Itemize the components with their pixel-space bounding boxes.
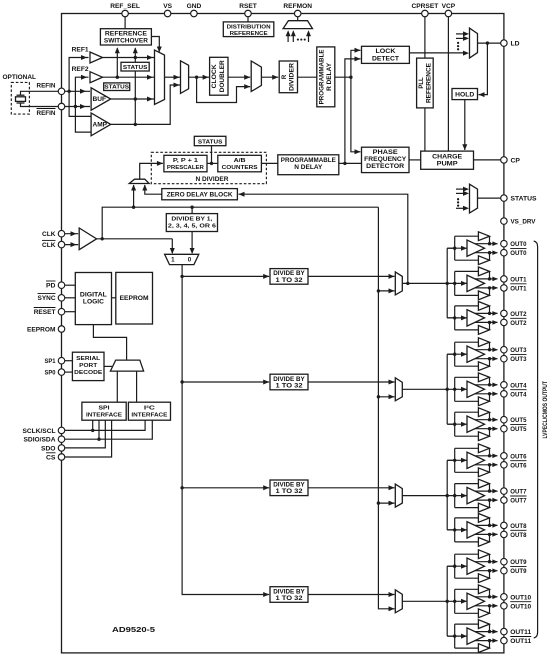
- svg-text:OUT8: OUT8: [510, 523, 526, 530]
- wire digital logic to eeprom: [112, 297, 116, 299]
- wire mux2 output: [189, 76, 210, 78]
- svg-text:OUT1: OUT1: [510, 276, 526, 283]
- output driver OUT9: [447, 550, 507, 583]
- wire reference switchover to mux1 select: [151, 37, 159, 52]
- bracket LVPECL/CMOS outputs: [534, 241, 538, 638]
- output driver OUT7: [447, 479, 507, 512]
- mux CLK source select 1/0: [165, 254, 199, 264]
- block REFERENCE SWITCHOVER: [100, 29, 151, 45]
- svg-text:N DELAY: N DELAY: [294, 165, 322, 171]
- wire REFIN branch up to REF1: [69, 58, 88, 92]
- wire VCP to charge pump: [447, 17, 449, 152]
- output driver OUT6: [447, 444, 507, 477]
- block PHASE FREQUENCY DETECTOR: [362, 147, 410, 172]
- wire REF2 output to mux: [103, 76, 155, 78]
- svg-text:SYNC: SYNC: [38, 295, 56, 302]
- svg-text:STATUS: STATUS: [123, 65, 148, 71]
- svg-text:2, 3, 4, 5, OR 6: 2, 3, 4, 5, OR 6: [168, 224, 217, 230]
- mux STATUS monitor: [456, 188, 463, 190]
- wire output group branch: [446, 354, 448, 424]
- svg-text:1 TO 32: 1 TO 32: [276, 595, 304, 602]
- wire output group branch: [446, 566, 448, 636]
- wire N delay to lock detect: [345, 59, 361, 163]
- wire trunk to channel mux A: [377, 289, 380, 292]
- wire divider D to channel mux: [308, 594, 395, 596]
- svg-text:DETECTOR: DETECTOR: [366, 164, 405, 170]
- svg-text:PUMP: PUMP: [437, 161, 458, 167]
- svg-text:REFERENCE: REFERENCE: [105, 31, 147, 37]
- svg-text:R: R: [282, 74, 288, 79]
- output driver OUT4: [447, 373, 507, 406]
- wire N delay to PFD: [339, 162, 362, 164]
- wire CS: [62, 420, 112, 457]
- svg-text:BUF: BUF: [93, 96, 107, 103]
- wire PD stub: [62, 284, 76, 286]
- svg-text:PROGRAMMABLE: PROGRAMMABLE: [319, 49, 325, 104]
- svg-text:SP1: SP1: [45, 358, 56, 365]
- block DIVIDE BY 1 TO 32 (B): [270, 374, 308, 390]
- wire serial port decode to mux: [104, 365, 112, 367]
- svg-text:SPI: SPI: [99, 405, 110, 411]
- svg-text:REF1: REF1: [72, 48, 90, 54]
- svg-text:A/B: A/B: [234, 158, 246, 164]
- wire CLK buffer output node: [97, 238, 173, 240]
- svg-text:VS_DRV: VS_DRV: [511, 219, 536, 226]
- svg-text:AD9520-5: AD9520-5: [112, 625, 155, 634]
- svg-text:STATUS: STATUS: [511, 196, 537, 203]
- block P P+1 PRESCALER: [164, 155, 207, 172]
- output driver OUT2: [447, 302, 507, 335]
- node prescaler to counters: [207, 162, 218, 164]
- svg-text:GND: GND: [187, 3, 202, 10]
- wire REFIN to crystal: [21, 91, 62, 95]
- block R DIVIDER: [279, 61, 297, 93]
- svg-text:1 TO 32: 1 TO 32: [276, 382, 304, 389]
- wire LD node to HOLD: [479, 43, 488, 95]
- svg-text:SDIO/SDA: SDIO/SDA: [24, 437, 56, 444]
- status box REF1: [121, 62, 149, 71]
- svg-text:PROGRAMMABLE: PROGRAMMABLE: [281, 158, 336, 164]
- svg-text:SWITCHOVER: SWITCHOVER: [104, 38, 149, 44]
- wire CLK line to N mux: [133, 185, 135, 207]
- mux U2 reference/amp select: [181, 61, 189, 94]
- output driver OUT11: [447, 620, 507, 653]
- wire divide by 1-6 to mux 0 input: [191, 232, 193, 254]
- wire output group branch: [446, 460, 448, 530]
- wire CLK direct to mux 1 input: [171, 239, 173, 253]
- block DISTRIBUTION REFERENCE: [223, 22, 273, 37]
- block ZERO DELAY BLOCK: [162, 189, 238, 200]
- svg-text:REF_SEL: REF_SEL: [110, 3, 140, 10]
- svg-text:N DIVIDER: N DIVIDER: [196, 177, 230, 183]
- block I2C INTERFACE: [128, 402, 170, 420]
- wire mux3 to R divider: [261, 76, 278, 78]
- svg-text:ZERO DELAY BLOCK: ZERO DELAY BLOCK: [167, 193, 234, 199]
- wire SCLK/SCL: [62, 420, 146, 430]
- svg-text:OUT2: OUT2: [510, 311, 526, 318]
- svg-text:PHASE: PHASE: [373, 150, 398, 156]
- output driver OUT5: [447, 408, 507, 441]
- wire feedback to zero delay block: [239, 194, 408, 283]
- wire divider row B input: [182, 381, 269, 383]
- wire channel C mux output: [402, 495, 447, 497]
- buffer CLK input: [62, 233, 79, 235]
- wire divider A to channel mux: [308, 275, 395, 277]
- svg-text:REFIN: REFIN: [37, 110, 56, 117]
- wire REFMON mux inputs: [287, 32, 289, 43]
- mux N divider input select: [129, 179, 149, 183]
- wire SDIO/SDA: [62, 420, 153, 439]
- svg-text:I²C: I²C: [144, 404, 156, 411]
- wire channel A mux output: [402, 282, 447, 284]
- wire REFINB branch up to REF2: [75, 77, 88, 106]
- chip outline AD9520-5: [62, 14, 504, 653]
- wire channel B mux output: [402, 388, 447, 390]
- svg-text:OUT3: OUT3: [510, 347, 526, 354]
- svg-text:SP0: SP0: [45, 370, 56, 377]
- svg-text:OPTIONAL: OPTIONAL: [3, 74, 37, 81]
- wire divider C to channel mux: [308, 487, 395, 489]
- wire charge pump to CP pin: [474, 159, 504, 161]
- svg-text:0: 0: [188, 257, 192, 264]
- block DIVIDE BY 1,2,3,4,5 OR 6: [166, 214, 217, 232]
- svg-text:OUT11: OUT11: [510, 629, 531, 636]
- block SERIAL PORT DECODE: [72, 352, 104, 380]
- block LOCK DETECT: [362, 46, 410, 63]
- wire zero delay to N mux: [145, 185, 162, 194]
- svg-text:CLOCK: CLOCK: [212, 64, 218, 89]
- block EEPROM: [116, 272, 153, 324]
- svg-text:1 TO 32: 1 TO 32: [276, 277, 304, 284]
- svg-text:SCLK/SCL: SCLK/SCL: [23, 428, 56, 435]
- svg-text:LOGIC: LOGIC: [83, 299, 105, 305]
- svg-text:DECODE: DECODE: [74, 370, 102, 376]
- svg-text:AMP: AMP: [93, 122, 108, 129]
- block PLL REFERENCE: [417, 58, 434, 108]
- svg-text:INTERFACE: INTERFACE: [131, 412, 167, 418]
- svg-text:CPRSET: CPRSET: [412, 3, 439, 10]
- block PROGRAMMABLE R DELAY: [317, 47, 335, 107]
- svg-text:1 TO 32: 1 TO 32: [276, 488, 304, 495]
- svg-text:OUT8: OUT8: [510, 532, 526, 539]
- svg-text:DIGITAL: DIGITAL: [80, 292, 107, 298]
- block DIVIDE BY 1 TO 32 (C): [270, 480, 308, 496]
- output driver OUT8: [447, 514, 507, 547]
- mux LD monitor: [456, 33, 463, 35]
- optional crystal dashed box: [11, 82, 29, 114]
- wire REFINB into chip to BUF: [62, 106, 91, 108]
- svg-text:REF2: REF2: [72, 67, 90, 73]
- svg-text:HOLD: HOLD: [455, 92, 475, 99]
- wire channel D mux output: [402, 600, 447, 602]
- wire REFIN into chip to BUF: [62, 90, 91, 92]
- block CHARGE PUMP: [421, 151, 474, 169]
- wire SDO: [62, 420, 106, 448]
- svg-text:FREQUENCY: FREQUENCY: [364, 157, 406, 163]
- svg-text:OUT7: OUT7: [510, 489, 526, 496]
- wire mux to SPI interface: [116, 371, 118, 402]
- svg-text:PD: PD: [46, 283, 56, 290]
- buffer BUF: [91, 88, 111, 110]
- svg-text:OUT5: OUT5: [510, 426, 526, 433]
- wire status to N divider node: [211, 146, 213, 164]
- output driver OUT10: [447, 585, 507, 618]
- svg-text:SDO: SDO: [41, 445, 56, 452]
- svg-text:R DELAY: R DELAY: [327, 63, 333, 91]
- svg-text:OUT6: OUT6: [510, 462, 526, 469]
- wire digital logic to serial mux: [93, 325, 126, 361]
- svg-text:1: 1: [171, 257, 175, 264]
- svg-text:REFERENCE: REFERENCE: [230, 31, 268, 37]
- svg-text:PORT: PORT: [79, 363, 97, 369]
- svg-text:STATUS: STATUS: [104, 85, 129, 91]
- wire trunk to channel mux C: [377, 501, 380, 504]
- block A/B COUNTERS: [218, 155, 262, 172]
- svg-text:PLL: PLL: [419, 77, 425, 89]
- dashed box N DIVIDER: [151, 152, 266, 183]
- svg-text:CLK: CLK: [42, 231, 56, 238]
- wire divider row A input: [182, 275, 269, 277]
- svg-text:PRESCALER: PRESCALER: [167, 165, 205, 171]
- svg-text:EEPROM: EEPROM: [120, 296, 149, 302]
- svg-text:OUT10: OUT10: [510, 603, 531, 610]
- svg-text:OUT10: OUT10: [510, 594, 531, 601]
- block CLOCK DOUBLER: [210, 57, 228, 95]
- svg-text:OUT5: OUT5: [510, 417, 526, 424]
- mux channel A: [395, 272, 402, 295]
- wire status monitor vertical REF2: [116, 48, 118, 77]
- wire RSET to distribution reference: [247, 17, 249, 22]
- svg-text:LVPECL/CMOS OUTPUT: LVPECL/CMOS OUTPUT: [542, 381, 549, 439]
- block PROGRAMMABLE N DELAY: [278, 155, 339, 175]
- svg-text:VCP: VCP: [442, 3, 456, 10]
- svg-text:INTERFACE: INTERFACE: [86, 412, 122, 418]
- wire N mux to prescaler: [140, 163, 163, 179]
- wire AMP output to mux2: [111, 85, 181, 124]
- svg-text:OUT1: OUT1: [510, 285, 526, 292]
- wire distribution trunk vertical: [378, 207, 394, 609]
- svg-text:REFIN: REFIN: [37, 83, 56, 90]
- svg-text:DIVIDE BY 1,: DIVIDE BY 1,: [171, 217, 212, 223]
- block DIVIDE BY 1 TO 32 (D): [270, 587, 308, 603]
- mux U3 doubler bypass: [251, 61, 261, 92]
- svg-text:OUT3: OUT3: [510, 356, 526, 363]
- svg-text:OUT0: OUT0: [510, 250, 526, 257]
- output driver OUT3: [447, 338, 507, 371]
- wire output group branch: [446, 248, 448, 318]
- block DIGITAL LOGIC: [75, 273, 111, 325]
- wire divider trunk vertical: [182, 265, 269, 595]
- wire mux1 to mux2: [165, 76, 181, 78]
- wire doubler to mux3: [228, 76, 250, 78]
- svg-text:OUT4: OUT4: [510, 391, 526, 398]
- block DIVIDE BY 1 TO 32 (A): [270, 269, 308, 285]
- wire lock detect to LD mux: [409, 52, 463, 54]
- svg-text:OUT11: OUT11: [510, 638, 531, 645]
- output driver OUT1: [447, 267, 507, 300]
- svg-text:DISTRIBUTION: DISTRIBUTION: [227, 24, 271, 30]
- wire SP0 stub: [62, 371, 73, 373]
- mux U1 reference select: [155, 50, 165, 105]
- buffer AMP: [91, 113, 111, 136]
- svg-text:LD: LD: [511, 41, 520, 48]
- wire LD mux to LD pin: [478, 42, 504, 44]
- mux REFMON monitor: [297, 17, 299, 21]
- svg-text:P, P + 1: P, P + 1: [173, 158, 199, 164]
- wire BUF output to mux: [111, 98, 155, 100]
- svg-text:DIVIDER: DIVIDER: [289, 62, 295, 91]
- wire REFINB branch down to AMP: [75, 107, 91, 133]
- svg-text:REFMON: REFMON: [283, 3, 312, 10]
- svg-text:OUT9: OUT9: [510, 559, 526, 566]
- wire mux to I2C interface: [136, 371, 138, 402]
- svg-text:DETECT: DETECT: [372, 56, 399, 62]
- wire divider B to channel mux: [308, 381, 395, 383]
- svg-text:OUT7: OUT7: [510, 498, 526, 505]
- block SPI INTERFACE: [82, 402, 126, 420]
- svg-text:SERIAL: SERIAL: [76, 356, 100, 362]
- svg-text:CLK: CLK: [42, 242, 56, 249]
- wire main line down to divide by 1-6: [191, 207, 193, 213]
- wire CPRSET to charge pump: [424, 17, 426, 152]
- wire clock doubler bypass: [197, 77, 251, 102]
- wire R divider to R delay: [298, 76, 317, 78]
- svg-text:STATUS: STATUS: [198, 139, 223, 145]
- svg-text:CHARGE: CHARGE: [432, 154, 462, 160]
- wire REFIN branch down to AMP: [69, 91, 91, 116]
- svg-text:CS: CS: [46, 454, 56, 461]
- svg-text:OUT2: OUT2: [510, 320, 526, 327]
- mux channel D: [395, 590, 402, 613]
- output driver OUT0: [447, 232, 507, 265]
- crystal Y1: [17, 94, 25, 96]
- svg-text:OUT4: OUT4: [510, 382, 526, 389]
- svg-text:OUT9: OUT9: [510, 568, 526, 575]
- wire zero delay feedback tap: [406, 282, 409, 285]
- wire PFD to charge pump: [409, 159, 421, 161]
- wire CLK to main distribution line: [102, 207, 378, 239]
- wire HOLD to charge pump: [464, 100, 466, 150]
- status box REF2: [104, 83, 130, 91]
- wire R delay output node: [335, 76, 351, 78]
- svg-text:OUT0: OUT0: [510, 241, 526, 248]
- svg-text:OUT6: OUT6: [510, 453, 526, 460]
- svg-text:COUNTERS: COUNTERS: [222, 165, 258, 171]
- svg-text:REFERENCE: REFERENCE: [427, 63, 433, 103]
- svg-text:RESET: RESET: [34, 309, 57, 316]
- wire R delay to lock detect: [351, 50, 361, 77]
- svg-text:RSET: RSET: [239, 3, 257, 10]
- wire R delay to PFD: [351, 77, 361, 152]
- block HOLD: [452, 89, 478, 100]
- wire trunk to channel mux B: [377, 395, 380, 398]
- mux channel B: [395, 378, 402, 401]
- svg-text:EEPROM: EEPROM: [27, 326, 56, 333]
- wire status monitor vertical REF1/BUF/AMP: [134, 48, 136, 124]
- wire SP1 stub: [62, 360, 73, 362]
- svg-text:DOUBLER: DOUBLER: [220, 60, 226, 93]
- wire RESET stub: [62, 311, 76, 313]
- status box N divider: [194, 136, 226, 145]
- wire SYNC stub: [62, 297, 76, 299]
- wire STATUS mux to STATUS pin: [478, 197, 504, 199]
- wire REFINB to crystal: [21, 103, 62, 107]
- svg-text:CP: CP: [511, 157, 521, 164]
- wire counters to N delay: [261, 162, 277, 164]
- wire REF_SEL to reference switchover: [124, 17, 126, 29]
- svg-text:VS: VS: [163, 3, 172, 10]
- mux serial interface select: [110, 360, 143, 371]
- mux channel C: [395, 484, 402, 507]
- svg-text:LOCK: LOCK: [376, 49, 397, 55]
- wire divider row C input: [182, 487, 269, 489]
- wire REF1 output to mux: [103, 57, 155, 59]
